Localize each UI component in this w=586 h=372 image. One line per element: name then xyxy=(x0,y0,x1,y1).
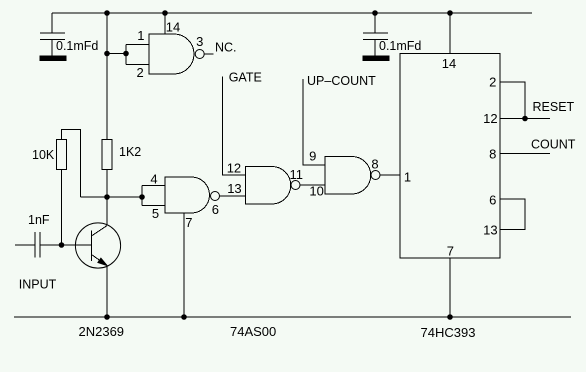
svg-text:2N2369: 2N2369 xyxy=(79,324,125,339)
node: junction dot pin14 on rail xyxy=(162,10,168,16)
wire: 10K feedback loop to collector node xyxy=(62,130,81,198)
node: junction dot U2 pin7/ground xyxy=(447,314,453,320)
capacitor C3 1nF plates xyxy=(35,232,40,258)
capacitor C2 0.1mFd plates xyxy=(363,33,388,40)
node: junction dot at U1A input connector xyxy=(123,51,129,57)
svg-text:74HC393: 74HC393 xyxy=(421,325,476,340)
svg-text:INPUT: INPUT xyxy=(19,277,57,291)
svg-text:74AS00: 74AS00 xyxy=(230,324,276,339)
NAND gate U1C body xyxy=(246,167,291,205)
wire: main vertical from rail to 1K2 xyxy=(106,13,108,140)
svg-text:7: 7 xyxy=(447,244,454,259)
wire: U2 pin 14 to rail xyxy=(449,13,451,54)
svg-text:11: 11 xyxy=(290,167,304,182)
wire: UP-COUNT line down to U1D pin 9 xyxy=(303,79,325,165)
svg-text:COUNT: COUNT xyxy=(531,138,576,152)
svg-text:1: 1 xyxy=(404,170,411,185)
node: junction dot collector node xyxy=(104,194,110,200)
svg-text:NC.: NC. xyxy=(215,41,237,55)
svg-text:3: 3 xyxy=(196,34,203,49)
svg-text:RESET: RESET xyxy=(533,100,575,114)
svg-text:6: 6 xyxy=(212,202,219,217)
NAND U1D inverting bubble xyxy=(371,171,380,180)
resistor R1 10K body xyxy=(57,140,67,170)
wire: U1A output stub to NC xyxy=(204,53,213,55)
svg-text:2: 2 xyxy=(489,75,496,90)
NAND U1C inverting bubble xyxy=(291,181,300,190)
wire: U2 pin 12 RESET stub xyxy=(500,118,550,120)
ground symbol for C2 xyxy=(363,40,389,61)
wire: input stub to C3 xyxy=(15,244,35,246)
node: junction dot C2 on rail xyxy=(372,10,378,16)
svg-text:14: 14 xyxy=(442,56,456,71)
wire: emitter to ground rail xyxy=(106,266,108,318)
svg-text:2: 2 xyxy=(137,65,144,80)
wire: U2 pin 6 to pin 13 tie xyxy=(500,199,525,230)
svg-text:12: 12 xyxy=(483,111,497,126)
svg-text:1: 1 xyxy=(137,28,144,43)
svg-text:1nF: 1nF xyxy=(28,213,50,227)
svg-text:10K: 10K xyxy=(32,148,55,162)
svg-text:13: 13 xyxy=(227,181,241,196)
svg-text:14: 14 xyxy=(166,20,180,35)
NAND gate U1D body xyxy=(325,157,371,195)
wire: U1D output to U2 pin 1 xyxy=(380,174,400,176)
node: junction dot U2 pin14 on rail xyxy=(447,10,453,16)
wire: collector vertical into Q1 xyxy=(106,197,108,226)
svg-text:8: 8 xyxy=(371,156,378,171)
svg-text:0.1mFd: 0.1mFd xyxy=(56,39,98,53)
svg-text:6: 6 xyxy=(489,193,496,208)
wire: U1C output to U1D pin 10 xyxy=(300,184,325,186)
svg-text:9: 9 xyxy=(309,149,316,164)
capacitor C1 0.1mFd plates xyxy=(40,33,65,40)
node: junction dot emitter/ground xyxy=(104,314,110,320)
wire: U2 pin 8 COUNT stub xyxy=(500,153,550,155)
node: junction dot U1B pin7/ground xyxy=(181,314,187,320)
wire: U1B pin7 to ground xyxy=(183,213,185,317)
svg-text:12: 12 xyxy=(227,160,241,175)
wire: U1B input connector pins 4-5 xyxy=(142,186,165,206)
wire: rail down to C2 xyxy=(374,13,376,33)
NAND U1B inverting bubble xyxy=(211,192,220,201)
node: junction dot base/10K xyxy=(59,242,65,248)
wire: branch to gate U1A inputs xyxy=(107,53,126,55)
wire: collector node to U1B input connector xyxy=(81,196,143,198)
svg-text:GATE: GATE xyxy=(229,70,262,84)
NAND U1A inverting bubble xyxy=(195,50,204,59)
node: junction dot at U1B connector xyxy=(139,194,145,200)
node: junction dot at branch start xyxy=(104,51,110,57)
ground symbol for C1 xyxy=(40,40,66,61)
NAND gate U1B body xyxy=(165,177,210,213)
svg-text:7: 7 xyxy=(185,215,192,230)
svg-text:1K2: 1K2 xyxy=(119,145,141,159)
svg-text:10: 10 xyxy=(309,184,323,199)
wire: U1A input connector pins 1-2 xyxy=(126,45,149,65)
svg-text:4: 4 xyxy=(150,172,157,187)
wire: pin 14 from rail to U1A xyxy=(164,13,166,34)
wire: 1K2 bottom to collector node xyxy=(106,170,108,198)
wire: GATE line down to U1C pin 12 xyxy=(223,77,246,176)
svg-text:8: 8 xyxy=(489,147,496,162)
svg-text:0.1mFd: 0.1mFd xyxy=(379,39,421,53)
wire: C3 to Q1 base xyxy=(40,244,92,246)
wire: U2 pin 2 to pin 12 tie xyxy=(500,82,525,119)
wire: U2 pin 7 to ground rail xyxy=(449,258,451,317)
IC U2 74HC393 body xyxy=(400,54,500,259)
transistor Q1 2N2369 xyxy=(75,223,120,268)
wire: top supply rail xyxy=(52,12,532,14)
wire: rail down to C1 xyxy=(51,13,53,33)
wire: U1B output to U1C pin 13 xyxy=(220,195,246,197)
NAND gate U1A body xyxy=(149,34,194,74)
svg-text:13: 13 xyxy=(483,223,497,238)
wire: 10K bottom to base wire xyxy=(61,170,63,246)
resistor R2 1K2 body xyxy=(102,140,112,170)
node: junction dot rail/main vertical xyxy=(104,10,110,16)
svg-text:UP–COUNT: UP–COUNT xyxy=(307,74,376,88)
wire: ground rail xyxy=(14,316,571,318)
svg-text:5: 5 xyxy=(152,206,159,221)
node: junction dot pin2/pin12 tie xyxy=(522,116,528,122)
